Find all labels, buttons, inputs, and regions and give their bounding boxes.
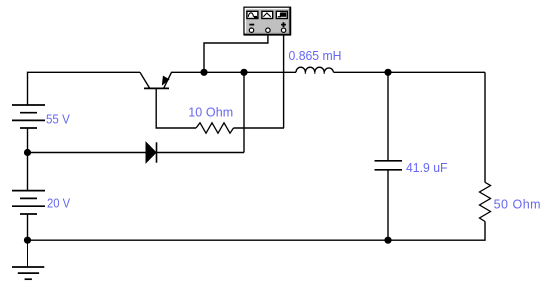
battery V2	[12, 191, 45, 214]
wire diode cathode to riser	[157, 152, 245, 154]
svg-text:0.865 mH: 0.865 mH	[289, 49, 342, 63]
diode D1	[146, 142, 157, 162]
wire resistor to FG plus riser	[234, 127, 285, 129]
transistor Q1	[140, 72, 172, 88]
resistor R1 10 Ohm	[196, 123, 234, 133]
wire FG plus lead	[283, 35, 285, 129]
wire load to bottom rail	[28, 222, 486, 241]
FG plus label	[281, 22, 286, 27]
node dot emitter-diode	[240, 69, 247, 76]
wire top-left rail	[28, 72, 141, 105]
wire left rail battery1 to node	[27, 128, 29, 191]
svg-text:55 V: 55 V	[46, 113, 70, 127]
svg-text:20 V: 20 V	[47, 197, 71, 211]
resistor R2 50 Ohm	[480, 182, 491, 221]
FG terminal plus	[281, 28, 285, 32]
wire mid rail to diode anode	[28, 152, 147, 154]
wire capacitor branch upper	[387, 72, 389, 160]
capacitor C1	[375, 161, 403, 170]
node dot output top	[384, 69, 391, 76]
node dot left mid	[24, 149, 31, 156]
svg-text:50 Ohm: 50 Ohm	[494, 198, 541, 212]
ground	[12, 240, 44, 279]
node dot left bottom	[24, 237, 31, 244]
battery V1	[12, 105, 45, 128]
function generator XFG1	[244, 7, 291, 35]
wire right rail down to load	[484, 72, 486, 182]
svg-text:41.9 uF: 41.9 uF	[406, 161, 448, 175]
wire FG common lead	[204, 35, 268, 73]
FG square button	[276, 11, 287, 18]
inductor L1	[296, 67, 334, 72]
FG triangle button	[262, 11, 273, 18]
inductor cusp ticks	[305, 72, 324, 74]
node dot output bottom	[384, 237, 391, 244]
wire capacitor branch lower	[387, 170, 389, 240]
wire base lead down and right	[156, 88, 196, 128]
wire left rail battery2 to bottom	[27, 214, 29, 240]
FG terminal minus	[249, 28, 253, 32]
wire inductor to right corner	[334, 71, 486, 73]
FG sine button	[247, 11, 258, 18]
FG terminal common	[266, 28, 270, 32]
svg-text:10 Ohm: 10 Ohm	[188, 106, 233, 120]
node dot emitter-common	[200, 69, 207, 76]
wire riser diode to top node	[243, 72, 245, 152]
wire emitter to inductor	[171, 71, 296, 73]
FG minus label	[249, 24, 254, 26]
